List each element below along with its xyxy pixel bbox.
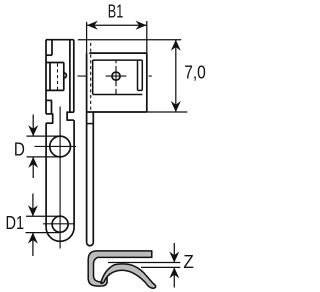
svg-text:Z: Z — [183, 252, 193, 272]
svg-text:D: D — [14, 139, 25, 159]
svg-text:B1: B1 — [108, 1, 123, 21]
svg-text:7,0: 7,0 — [184, 62, 206, 82]
svg-text:D1: D1 — [6, 213, 25, 233]
